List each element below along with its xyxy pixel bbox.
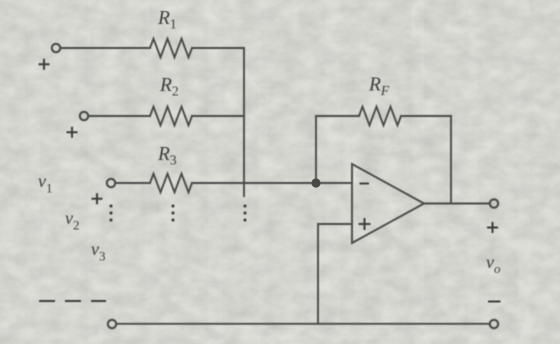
- wire: bottom rail: [117, 323, 490, 325]
- wire: feedback top right segment: [401, 115, 451, 117]
- bottom rail terminal left (open circle): [108, 320, 116, 328]
- wire: op-amp output: [424, 203, 490, 205]
- resistor RF: [359, 107, 401, 126]
- wire: R3 to summing node: [192, 182, 316, 184]
- plus sign input 2: [67, 127, 78, 138]
- resistor R1: [150, 39, 192, 58]
- input terminal 1 (open circle): [52, 44, 60, 52]
- op-amp U1: [352, 164, 424, 243]
- bottom rail terminal right (open circle): [490, 320, 498, 328]
- minus dashes for inputs: [39, 300, 106, 302]
- wire: feedback up from summing node: [315, 116, 317, 183]
- node: summing junction dot: [311, 178, 320, 187]
- wire: R1 to bus: [192, 47, 244, 49]
- wire: vertical bus joining R1 R2 R3: [243, 48, 245, 196]
- output terminal (open circle): [490, 199, 498, 207]
- ellipsis dots column 2 (more resistors): [171, 204, 174, 221]
- output plus sign: [487, 222, 498, 233]
- wire: terminal 2 to R2: [89, 115, 151, 117]
- wire: feedback down to output: [450, 116, 452, 204]
- output minus sign: [488, 301, 501, 303]
- wire: R2 to bus: [192, 115, 244, 117]
- input terminal 3 (open circle): [107, 179, 115, 187]
- wire: noninverting input: [318, 224, 352, 324]
- plus sign input 1: [39, 59, 50, 70]
- ellipsis dots column 1 (more inputs): [109, 204, 112, 221]
- op-amp noninverting pin plus: [359, 218, 371, 230]
- wire: summing node to op-amp inverting input: [316, 182, 352, 184]
- op-amp inverting pin minus: [360, 183, 370, 185]
- plus sign input 3: [92, 193, 103, 204]
- ellipsis dots column 3 (bus continues): [243, 204, 246, 221]
- wire: feedback top left segment: [316, 115, 359, 117]
- wire: terminal 1 to R1: [61, 47, 151, 49]
- wire: terminal 3 to R3: [116, 182, 151, 184]
- input terminal 2 (open circle): [80, 112, 88, 120]
- resistor R3: [150, 174, 192, 193]
- resistor R2: [150, 107, 192, 126]
